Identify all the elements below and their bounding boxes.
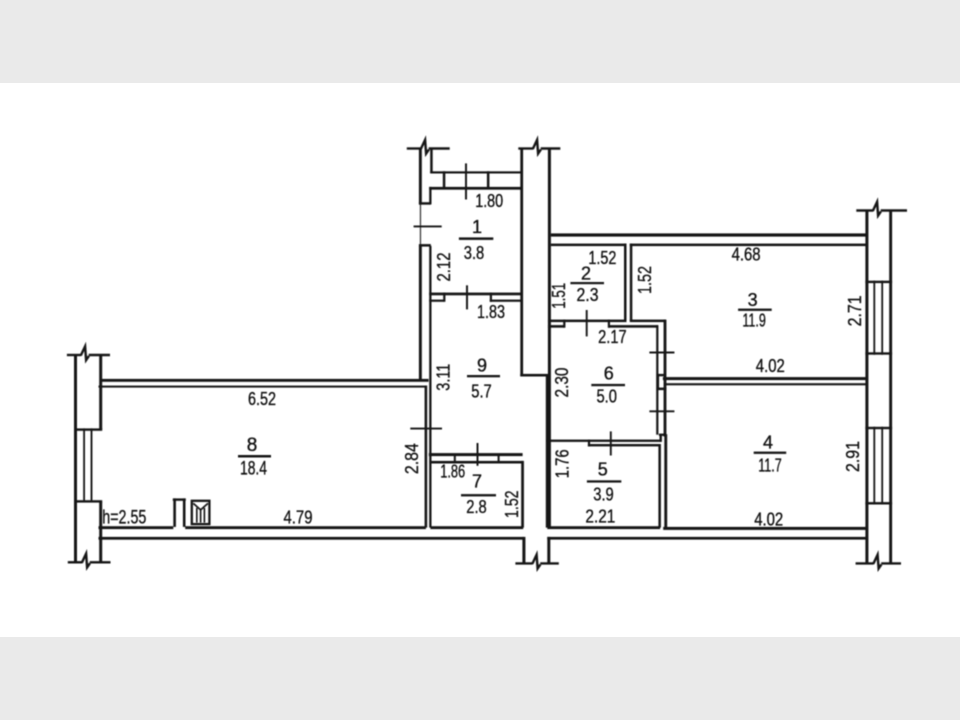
break symbol bottom centre	[515, 555, 558, 569]
svg-text:2.30: 2.30	[551, 368, 572, 398]
rooms 1-9-7 left wall	[429, 246, 431, 528]
svg-text:3.8: 3.8	[464, 242, 485, 263]
svg-text:2.84: 2.84	[401, 443, 422, 474]
svg-text:2.3: 2.3	[577, 284, 599, 305]
room 8 bottom wall inner line seg1	[99, 526, 174, 529]
svg-text:4.02: 4.02	[754, 510, 783, 530]
svg-text:2.91: 2.91	[842, 441, 863, 472]
room 7 bottom wall	[430, 526, 523, 529]
room 6 top wall seg1	[548, 325, 564, 328]
dim tick wall 6-5	[610, 431, 612, 455]
svg-text:4.02: 4.02	[756, 356, 785, 376]
door sill stub 9-7 right	[498, 456, 500, 463]
window stub top room1 left	[419, 202, 431, 205]
break symbol top left	[407, 140, 450, 154]
right wall outer line	[889, 211, 892, 564]
svg-text:1.52: 1.52	[501, 490, 522, 518]
room 2 top wall	[551, 244, 627, 247]
room 3 fraction line	[738, 309, 772, 311]
break symbol left bottom	[68, 554, 111, 568]
door jamb 1-9 right	[490, 293, 492, 302]
door jamb 1-9 left	[443, 293, 445, 302]
room 2 fraction line	[570, 282, 604, 284]
wall pier right jamb	[183, 498, 186, 527]
break symbol left top	[67, 346, 110, 360]
porch left wall	[522, 537, 525, 564]
svg-text:1.86: 1.86	[440, 462, 465, 482]
window right (room 3)	[865, 281, 892, 355]
dim tick room1 left window	[414, 225, 442, 227]
wall 3-4 end cap bottom	[657, 388, 667, 391]
room 7 right wall	[521, 461, 524, 528]
right wall inner line	[865, 211, 868, 564]
wall 3-4 end cap vertical	[657, 374, 660, 390]
svg-text:1: 1	[472, 217, 482, 237]
svg-text:1.76: 1.76	[552, 449, 573, 478]
room 7 fraction line	[461, 494, 496, 496]
room 7 top wall	[430, 461, 523, 464]
shaft left wall line	[656, 325, 658, 435]
break symbol right top	[856, 202, 907, 216]
dim tick wall 1-9	[466, 285, 468, 309]
room 9 top wall seg2	[490, 300, 521, 302]
svg-text:8: 8	[247, 435, 258, 456]
room 4 fraction line	[754, 452, 787, 454]
room 4 bottom wall	[663, 527, 867, 530]
room 8 top wall thick line	[101, 379, 429, 382]
wall 3-4 end cap top	[657, 374, 666, 376]
niche bottom wall	[630, 320, 666, 323]
rooms 2-6-5 left wall	[548, 149, 551, 528]
room 9 top wall seg1	[429, 300, 444, 302]
corridor top wall	[551, 233, 867, 236]
svg-text:1.52: 1.52	[634, 266, 655, 294]
svg-text:3: 3	[748, 290, 758, 310]
shaft right wall line	[664, 320, 667, 437]
wall rooms1-9 outer line lower	[419, 246, 422, 381]
window line room 1 left wall	[420, 204, 421, 246]
goalpost left vertical	[430, 149, 433, 173]
svg-text:2.8: 2.8	[466, 496, 487, 517]
dim tick room1 top	[465, 163, 467, 199]
svg-text:3.9: 3.9	[593, 484, 614, 505]
room 9 right wall jog	[520, 374, 549, 377]
room 2 right wall	[624, 244, 627, 321]
svg-text:3.11: 3.11	[433, 364, 454, 391]
break symbol right bottom	[856, 555, 901, 569]
room 3 top wall	[630, 244, 867, 247]
svg-text:6: 6	[604, 364, 614, 384]
svg-text:5.0: 5.0	[596, 386, 617, 407]
rooms 9-6 wall extra line	[546, 376, 548, 528]
door jamb 2-6 right	[608, 320, 610, 328]
porch right wall	[547, 537, 550, 564]
room 1 top door jamb right	[487, 171, 490, 188]
wall 6-5 jog horizontal	[659, 434, 666, 436]
wall left outer line	[74, 355, 77, 562]
room 1 bottom wall	[429, 293, 521, 296]
wall 3-4 thin line	[665, 383, 867, 385]
room 5 right wall	[658, 444, 661, 528]
wall 6-5 stub	[588, 440, 590, 447]
room 8 bottom wall outer line	[99, 537, 524, 540]
dim tick shaft wall upper	[649, 352, 674, 354]
dim tick wall 8-9	[410, 428, 442, 430]
wall 6-5 lower line	[588, 444, 659, 446]
svg-text:11.7: 11.7	[758, 455, 782, 476]
room 2 bottom wall	[548, 320, 626, 323]
window right (room 4)	[865, 427, 892, 505]
wall band rooms 8-9	[425, 386, 428, 528]
wall 3-4 thick line	[663, 377, 867, 380]
dim tick shaft wall lower	[649, 410, 674, 412]
outer bottom wall right part	[547, 537, 867, 540]
room 8 bottom wall inner line seg2	[185, 526, 426, 529]
dim tick wall 2-6	[586, 310, 588, 336]
wall pier top cap	[173, 498, 186, 500]
svg-text:4.68: 4.68	[732, 245, 761, 265]
wall 6-5 upper line	[546, 440, 661, 442]
room 1 fraction line	[459, 237, 493, 240]
svg-text:2.17: 2.17	[598, 327, 627, 347]
room 6 top wall seg2	[608, 325, 658, 328]
svg-text:2.71: 2.71	[844, 295, 865, 326]
room 1 top door jamb left	[443, 171, 446, 188]
svg-text:18.4: 18.4	[240, 459, 267, 480]
svg-text:9: 9	[477, 356, 487, 376]
room 8 top wall thin line	[99, 386, 427, 388]
room 4 left wall	[664, 434, 667, 528]
room 1 top wall	[429, 187, 522, 190]
window left (room 8)	[74, 428, 102, 502]
room 9 bottom wall	[429, 453, 523, 456]
svg-text:2.12: 2.12	[433, 253, 454, 282]
svg-text:4: 4	[763, 432, 773, 452]
window stub bottom room1 left	[419, 244, 431, 247]
svg-text:4.79: 4.79	[284, 508, 313, 528]
svg-text:5.7: 5.7	[471, 381, 492, 402]
rooms 1 left wall upper	[429, 187, 431, 204]
wall left inner line upper	[99, 355, 102, 430]
svg-text:h=2.55: h=2.55	[102, 507, 146, 529]
room 1 right wall / room 9 right upper	[520, 149, 523, 377]
wall left inner line lower	[99, 502, 102, 563]
room 5 fraction line	[587, 480, 621, 482]
svg-text:6.52: 6.52	[248, 389, 276, 409]
room 1 top outer line	[430, 171, 523, 173]
wall 6-5 jog vertical	[660, 434, 662, 442]
room 5 bottom wall	[547, 526, 660, 529]
room 9 fraction line	[467, 375, 500, 377]
ventilation shaft symbol	[192, 501, 210, 524]
svg-text:1.83: 1.83	[477, 302, 505, 322]
room 6 fraction line	[591, 384, 625, 386]
svg-text:2.21: 2.21	[585, 507, 615, 527]
wall pier left jamb	[173, 498, 176, 527]
room 8 fraction line	[238, 455, 271, 458]
svg-text:1.52: 1.52	[588, 248, 616, 268]
break symbol top right	[518, 140, 560, 154]
svg-text:5: 5	[598, 460, 608, 480]
dim tick wall 9-7	[477, 443, 479, 466]
svg-text:7: 7	[472, 472, 482, 492]
door jamb 2-6 left	[563, 320, 565, 328]
svg-text:1.51: 1.51	[548, 283, 569, 309]
svg-text:1.80: 1.80	[475, 191, 503, 211]
door sill stub 9-7 left	[454, 456, 456, 463]
wall rooms1-9 outer line upper	[419, 149, 422, 204]
svg-text:11.9: 11.9	[742, 310, 766, 331]
svg-text:2: 2	[581, 264, 591, 284]
room 3 left wall	[630, 244, 633, 322]
